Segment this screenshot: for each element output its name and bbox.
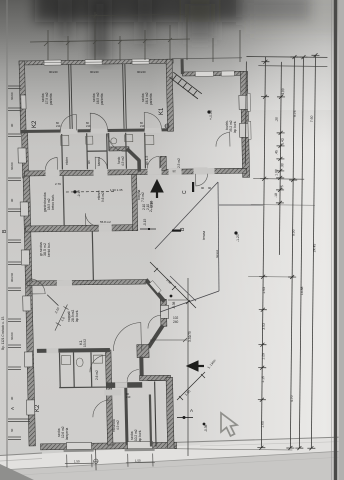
- svg-text:1.90 1.35: 1.90 1.35: [110, 188, 123, 192]
- svg-text:9.75: 9.75: [293, 110, 297, 117]
- svg-text:3-52/75: 3-52/75: [188, 331, 192, 342]
- svg-text:.30: .30: [280, 163, 284, 168]
- svg-text:lap burk.: lap burk.: [233, 121, 237, 133]
- svg-text:+-0.00: +-0.00: [209, 110, 213, 120]
- svg-text:1.00: 1.00: [274, 169, 278, 176]
- svg-text:1.50: 1.50: [135, 459, 141, 463]
- svg-text:60: 60: [10, 428, 14, 432]
- svg-text:kerlol bur.: kerlol bur.: [47, 242, 51, 257]
- svg-text:90: 90: [201, 186, 205, 190]
- svg-text:parketta: parketta: [149, 93, 153, 105]
- svg-text:1.15: 1.15: [261, 376, 265, 383]
- svg-text:beton burk.: beton burk.: [51, 194, 55, 210]
- svg-text:90/240: 90/240: [90, 70, 99, 74]
- svg-text:.45: .45: [274, 150, 278, 155]
- svg-text:60/90: 60/90: [10, 162, 14, 170]
- svg-text:kamra: kamra: [97, 157, 101, 166]
- svg-text:.75: .75: [280, 185, 284, 190]
- svg-text:2.79: 2.79: [55, 182, 61, 186]
- svg-text:1.50: 1.50: [74, 459, 80, 463]
- svg-text:14.88: 14.88: [300, 287, 304, 296]
- svg-text:210: 210: [86, 124, 91, 128]
- svg-text:92: 92: [172, 169, 176, 173]
- svg-text:lap burk.: lap burk.: [138, 430, 142, 442]
- svg-text:-0.38: -0.38: [172, 302, 176, 309]
- svg-text:4.70: 4.70: [290, 395, 294, 402]
- svg-text:lap burk.: lap burk.: [75, 310, 79, 322]
- svg-text:eloter: eloter: [65, 156, 69, 165]
- svg-text:210: 210: [140, 124, 145, 128]
- svg-text:K2: K2: [32, 120, 38, 128]
- svg-text:55.8 m2: 55.8 m2: [100, 220, 111, 224]
- svg-text:210: 210: [56, 124, 61, 128]
- svg-text:A: A: [190, 408, 193, 413]
- svg-text:24.45: 24.45: [312, 244, 316, 253]
- svg-text:4.00: 4.00: [281, 88, 285, 95]
- svg-text:9.00: 9.00: [292, 229, 296, 236]
- svg-text:.18: .18: [274, 193, 278, 198]
- svg-text:90: 90: [10, 123, 14, 127]
- svg-text:90/240: 90/240: [10, 272, 14, 282]
- svg-text:parketta: parketta: [100, 93, 104, 105]
- svg-text:1.29: 1.29: [261, 353, 265, 360]
- svg-text:K1: K1: [159, 107, 165, 115]
- svg-text:.20: .20: [275, 117, 279, 122]
- svg-text:13.92: 13.92: [83, 339, 87, 347]
- svg-text:240: 240: [173, 320, 179, 324]
- svg-text:+-0.15: +-0.15: [150, 201, 154, 210]
- svg-text:4.5 m2: 4.5 m2: [121, 156, 125, 166]
- svg-text:-1.20: -1.20: [236, 234, 240, 242]
- svg-text:7.60: 7.60: [310, 115, 314, 122]
- svg-text:2.6 m2: 2.6 m2: [95, 370, 99, 380]
- svg-text:9.6 m2: 9.6 m2: [101, 192, 105, 202]
- svg-text:lamperia: lamperia: [65, 428, 69, 440]
- svg-text:-0.38: -0.38: [204, 425, 208, 432]
- svg-text:wc: wc: [87, 160, 91, 164]
- svg-text:terasz: terasz: [202, 230, 206, 240]
- svg-text:3.53: 3.53: [262, 323, 266, 330]
- svg-text:Bp. 1121 Costado u. 15.: Bp. 1121 Costado u. 15.: [1, 316, 5, 350]
- svg-text:parketta: parketta: [49, 93, 53, 105]
- svg-text:1.53: 1.53: [262, 287, 266, 294]
- svg-text:60/90: 60/90: [10, 332, 14, 340]
- svg-text:1.65: 1.65: [261, 421, 265, 428]
- svg-text:90: 90: [208, 186, 212, 190]
- svg-text:K2: K2: [35, 404, 41, 412]
- svg-text:90/240: 90/240: [49, 70, 58, 74]
- svg-text:1.43: 1.43: [281, 138, 285, 145]
- svg-text:terasz: terasz: [215, 249, 219, 258]
- svg-text:-2.19: -2.19: [77, 190, 81, 198]
- svg-text:90: 90: [10, 198, 14, 202]
- svg-text:wc 1.5: wc 1.5: [145, 156, 149, 165]
- svg-text:90/240: 90/240: [137, 70, 146, 74]
- svg-text:A: A: [10, 407, 15, 410]
- svg-text:7.5 m2: 7.5 m2: [141, 192, 145, 202]
- svg-text:90: 90: [10, 396, 14, 400]
- svg-text:-0.15: -0.15: [143, 219, 147, 226]
- svg-text:2.5 m2: 2.5 m2: [177, 158, 181, 168]
- svg-text:210: 210: [126, 395, 131, 399]
- svg-text:4.9 m2: 4.9 m2: [116, 420, 120, 430]
- svg-text:60/90: 60/90: [10, 92, 14, 100]
- svg-text:C: C: [182, 190, 188, 194]
